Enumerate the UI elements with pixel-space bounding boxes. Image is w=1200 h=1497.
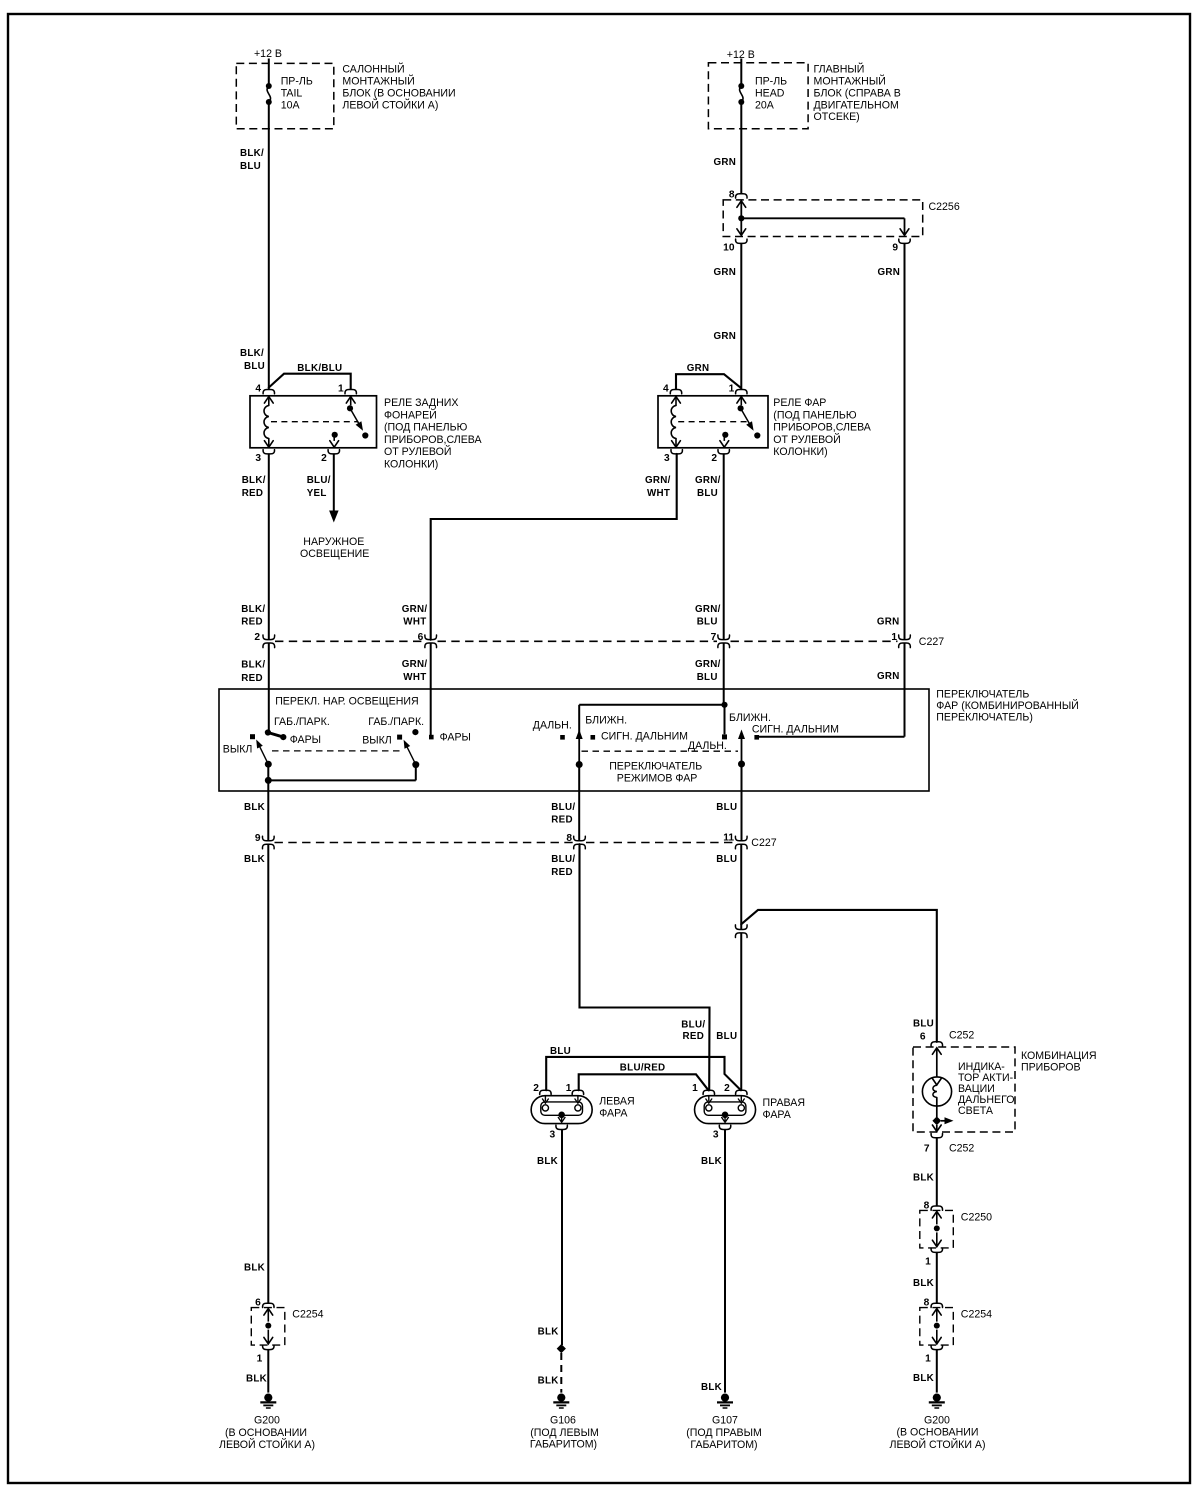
svg-text:BLU: BLU	[716, 802, 737, 813]
svg-text:РЕЖИМОВ ФАР: РЕЖИМОВ ФАР	[617, 772, 698, 784]
svg-text:G107: G107	[712, 1415, 738, 1427]
svg-text:(ПОД ЛЕВЫМ: (ПОД ЛЕВЫМ	[530, 1427, 599, 1439]
svg-text:RED: RED	[683, 1031, 705, 1042]
svg-text:МОНТАЖНЫЙ: МОНТАЖНЫЙ	[342, 74, 414, 87]
svg-text:6: 6	[920, 1032, 926, 1043]
svg-text:BLU/: BLU/	[551, 802, 575, 813]
svg-text:GRN/: GRN/	[645, 475, 671, 486]
svg-text:8: 8	[566, 833, 572, 844]
svg-text:C227: C227	[751, 837, 776, 849]
svg-text:RED: RED	[241, 673, 263, 684]
svg-text:2: 2	[724, 1083, 730, 1094]
svg-text:ДАЛЬН.: ДАЛЬН.	[533, 720, 572, 732]
svg-text:ГЛАВНЫЙ: ГЛАВНЫЙ	[814, 63, 865, 76]
svg-text:КОЛОНКИ): КОЛОНКИ)	[773, 446, 827, 458]
svg-text:ФАРА: ФАРА	[599, 1107, 628, 1119]
svg-text:BLK: BLK	[538, 1327, 559, 1338]
svg-text:БЛОК (СПРАВА В: БЛОК (СПРАВА В	[814, 87, 901, 99]
svg-text:1: 1	[566, 1083, 572, 1094]
svg-text:10А: 10А	[281, 99, 301, 111]
svg-text:C252: C252	[949, 1143, 974, 1155]
svg-text:ПР-ЛЬ: ПР-ЛЬ	[755, 75, 787, 87]
svg-text:C2254: C2254	[961, 1309, 992, 1321]
svg-text:GRN/: GRN/	[695, 659, 721, 670]
svg-text:BLU: BLU	[697, 488, 718, 499]
svg-text:ОСВЕЩЕНИЕ: ОСВЕЩЕНИЕ	[300, 548, 369, 560]
svg-text:BLK/BLU: BLK/BLU	[297, 363, 342, 374]
svg-text:BLK: BLK	[701, 1156, 722, 1167]
svg-text:ГАБАРИТОМ): ГАБАРИТОМ)	[690, 1439, 757, 1451]
svg-text:RED: RED	[241, 617, 263, 628]
svg-text:НАРУЖНОЕ: НАРУЖНОЕ	[303, 536, 364, 548]
svg-text:(ПОД ПРАВЫМ: (ПОД ПРАВЫМ	[686, 1427, 762, 1439]
svg-text:GRN: GRN	[687, 363, 710, 374]
svg-text:BLK/: BLK/	[240, 348, 264, 359]
svg-text:(ПОД ПАНЕЛЬЮ: (ПОД ПАНЕЛЬЮ	[384, 422, 468, 434]
svg-text:BLU/: BLU/	[681, 1020, 705, 1031]
svg-text:BLU: BLU	[716, 1031, 737, 1042]
svg-text:ПЕРЕКЛЮЧАТЕЛЬ): ПЕРЕКЛЮЧАТЕЛЬ)	[936, 712, 1033, 724]
svg-text:GRN: GRN	[877, 617, 900, 628]
svg-text:ПР-ЛЬ: ПР-ЛЬ	[281, 75, 313, 87]
svg-text:БЛИЖН.: БЛИЖН.	[729, 712, 771, 724]
svg-text:HEAD: HEAD	[755, 87, 785, 99]
svg-text:10: 10	[723, 243, 735, 254]
svg-text:ДАЛЬН.: ДАЛЬН.	[688, 740, 727, 752]
svg-text:BLU/: BLU/	[551, 854, 575, 865]
svg-text:BLU: BLU	[550, 1046, 571, 1057]
svg-text:WHT: WHT	[403, 672, 426, 683]
svg-text:RED: RED	[551, 815, 573, 826]
svg-text:11: 11	[723, 833, 734, 844]
svg-text:(В ОСНОВАНИИ: (В ОСНОВАНИИ	[897, 1427, 979, 1439]
svg-text:GRN/: GRN/	[402, 659, 428, 670]
svg-text:ВЫКЛ: ВЫКЛ	[362, 735, 392, 747]
svg-text:(В ОСНОВАНИИ: (В ОСНОВАНИИ	[225, 1427, 307, 1439]
svg-text:9: 9	[255, 833, 261, 844]
svg-text:ВЫКЛ: ВЫКЛ	[223, 744, 253, 756]
svg-text:BLU: BLU	[913, 1019, 934, 1030]
svg-text:9: 9	[892, 243, 898, 254]
svg-text:ПЕРЕКЛЮЧАТЕЛЬ: ПЕРЕКЛЮЧАТЕЛЬ	[609, 761, 702, 773]
svg-text:ЛЕВОЙ СТОЙКИ А): ЛЕВОЙ СТОЙКИ А)	[890, 1438, 986, 1451]
svg-text:ФАРА: ФАРА	[763, 1109, 792, 1121]
svg-text:BLK: BLK	[537, 1156, 558, 1167]
svg-text:BLK: BLK	[538, 1376, 559, 1387]
svg-text:BLU: BLU	[716, 854, 737, 865]
svg-text:3: 3	[255, 453, 261, 464]
svg-text:ФАРЫ: ФАРЫ	[440, 732, 471, 744]
svg-text:BLU/RED: BLU/RED	[620, 1062, 666, 1073]
svg-text:1: 1	[891, 632, 897, 643]
svg-text:ЛЕВОЙ СТОЙКИ А): ЛЕВОЙ СТОЙКИ А)	[342, 98, 438, 111]
svg-text:BLU: BLU	[697, 617, 718, 628]
svg-text:1: 1	[925, 1256, 931, 1267]
svg-text:GRN/: GRN/	[695, 475, 721, 486]
svg-text:4: 4	[663, 384, 669, 395]
svg-text:BLU: BLU	[697, 672, 718, 683]
svg-text:GRN: GRN	[878, 267, 901, 278]
svg-text:ПЕРЕКЛЮЧАТЕЛЬ: ПЕРЕКЛЮЧАТЕЛЬ	[936, 689, 1029, 701]
svg-text:СВЕТА: СВЕТА	[958, 1105, 994, 1117]
svg-text:ПЕРЕКЛ. НАР. ОСВЕЩЕНИЯ: ПЕРЕКЛ. НАР. ОСВЕЩЕНИЯ	[275, 696, 418, 708]
svg-text:ГАБ./ПАРК.: ГАБ./ПАРК.	[274, 716, 330, 728]
svg-text:GRN/: GRN/	[695, 604, 721, 615]
svg-text:C227: C227	[919, 636, 944, 648]
svg-text:ФАР (КОМБИНИРОВАННЫЙ: ФАР (КОМБИНИРОВАННЫЙ	[936, 699, 1079, 712]
svg-text:BLK: BLK	[244, 802, 265, 813]
svg-text:BLU/: BLU/	[307, 475, 331, 486]
svg-text:GRN: GRN	[714, 157, 737, 168]
svg-text:РЕЛЕ ЗАДНИХ: РЕЛЕ ЗАДНИХ	[384, 397, 458, 409]
svg-text:КОМБИНАЦИЯ: КОМБИНАЦИЯ	[1021, 1050, 1097, 1062]
svg-text:BLK: BLK	[913, 1278, 934, 1289]
svg-text:G106: G106	[550, 1415, 576, 1427]
svg-text:BLK: BLK	[246, 1374, 267, 1385]
svg-text:BLK: BLK	[701, 1382, 722, 1393]
svg-text:ПРИБОРОВ,СЛЕВА: ПРИБОРОВ,СЛЕВА	[773, 422, 871, 434]
svg-text:2: 2	[254, 632, 260, 643]
svg-text:GRN/: GRN/	[402, 604, 428, 615]
svg-text:ГАБАРИТОМ): ГАБАРИТОМ)	[530, 1439, 597, 1451]
svg-text:3: 3	[549, 1130, 555, 1141]
svg-text:C2256: C2256	[929, 201, 960, 213]
svg-text:ОТ РУЛЕВОЙ: ОТ РУЛЕВОЙ	[384, 445, 451, 458]
svg-text:КОЛОНКИ): КОЛОНКИ)	[384, 459, 438, 471]
svg-text:ФОНАРЕЙ: ФОНАРЕЙ	[384, 408, 437, 421]
svg-text:GRN: GRN	[714, 331, 737, 342]
svg-text:GRN: GRN	[877, 671, 900, 682]
svg-text:WHT: WHT	[403, 617, 426, 628]
svg-text:BLK: BLK	[244, 854, 265, 865]
svg-text:20А: 20А	[755, 99, 775, 111]
svg-text:BLK: BLK	[244, 1263, 265, 1274]
svg-text:BLU: BLU	[244, 361, 265, 372]
svg-text:1: 1	[692, 1083, 698, 1094]
svg-text:ЛЕВОЙ СТОЙКИ А): ЛЕВОЙ СТОЙКИ А)	[219, 1438, 315, 1451]
svg-text:3: 3	[664, 453, 670, 464]
svg-text:YEL: YEL	[307, 488, 327, 499]
svg-text:ЛЕВАЯ: ЛЕВАЯ	[599, 1095, 634, 1107]
svg-text:BLK/: BLK/	[240, 148, 264, 159]
svg-text:СИГН. ДАЛЬНИМ: СИГН. ДАЛЬНИМ	[752, 724, 839, 736]
svg-text:BLU: BLU	[240, 161, 261, 172]
svg-text:C2250: C2250	[961, 1211, 992, 1223]
svg-text:RED: RED	[242, 488, 264, 499]
svg-text:6: 6	[418, 632, 424, 643]
svg-text:РЕЛЕ ФАР: РЕЛЕ ФАР	[773, 397, 826, 409]
svg-text:3: 3	[713, 1130, 719, 1141]
svg-text:4: 4	[255, 384, 261, 395]
svg-text:БЛИЖН.: БЛИЖН.	[585, 715, 627, 727]
svg-text:C2254: C2254	[292, 1309, 323, 1321]
svg-text:TAIL: TAIL	[281, 87, 303, 99]
svg-text:RED: RED	[551, 867, 573, 878]
svg-text:7: 7	[924, 1144, 930, 1155]
svg-text:2: 2	[321, 453, 327, 464]
svg-text:ДВИГАТЕЛЬНОМ: ДВИГАТЕЛЬНОМ	[814, 99, 899, 111]
svg-text:7: 7	[711, 632, 717, 643]
svg-text:БЛОК (В ОСНОВАНИИ: БЛОК (В ОСНОВАНИИ	[342, 87, 455, 99]
svg-text:ПРИБОРОВ,СЛЕВА: ПРИБОРОВ,СЛЕВА	[384, 434, 482, 446]
svg-text:САЛОННЫЙ: САЛОННЫЙ	[342, 63, 404, 76]
svg-text:ПРИБОРОВ: ПРИБОРОВ	[1021, 1061, 1081, 1073]
svg-text:+12 В: +12 В	[254, 48, 282, 60]
svg-text:GRN: GRN	[714, 267, 737, 278]
svg-text:BLK/: BLK/	[241, 660, 265, 671]
svg-text:1: 1	[257, 1354, 263, 1365]
svg-text:МОНТАЖНЫЙ: МОНТАЖНЫЙ	[814, 74, 886, 87]
svg-text:ГАБ./ПАРК.: ГАБ./ПАРК.	[368, 716, 424, 728]
svg-text:BLK/: BLK/	[241, 604, 265, 615]
svg-text:BLK/: BLK/	[242, 475, 266, 486]
svg-text:1: 1	[925, 1354, 931, 1365]
svg-text:ПРАВАЯ: ПРАВАЯ	[763, 1097, 805, 1109]
svg-text:СИГН. ДАЛЬНИМ: СИГН. ДАЛЬНИМ	[601, 730, 688, 742]
svg-text:8: 8	[729, 190, 735, 201]
svg-text:G200: G200	[254, 1415, 280, 1427]
svg-text:(ПОД ПАНЕЛЬЮ: (ПОД ПАНЕЛЬЮ	[773, 409, 857, 421]
svg-text:ФАРЫ: ФАРЫ	[290, 734, 321, 746]
svg-text:G200: G200	[924, 1415, 950, 1427]
svg-text:BLK: BLK	[913, 1373, 934, 1384]
svg-text:ОТСЕКЕ): ОТСЕКЕ)	[814, 111, 860, 123]
svg-text:2: 2	[533, 1083, 539, 1094]
svg-text:C252: C252	[949, 1030, 974, 1042]
svg-text:2: 2	[711, 453, 717, 464]
svg-text:1: 1	[729, 384, 735, 395]
svg-text:BLK: BLK	[913, 1173, 934, 1184]
svg-text:ОТ РУЛЕВОЙ: ОТ РУЛЕВОЙ	[773, 433, 840, 446]
svg-text:1: 1	[338, 384, 344, 395]
svg-text:WHT: WHT	[647, 488, 670, 499]
